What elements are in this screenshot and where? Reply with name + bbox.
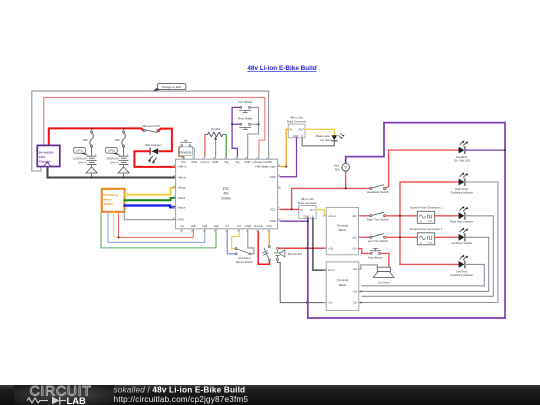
box terminal block 2 — [323, 262, 362, 311]
svg-text:-Motor: -Motor — [177, 205, 185, 209]
svg-text:VM1: VM1 — [334, 164, 340, 168]
svg-text:28: 28 — [213, 158, 215, 160]
svg-text:41: 41 — [203, 230, 205, 232]
svg-text:Horn Button: Horn Button — [368, 255, 383, 259]
svg-text:54.4v@2A: 54.4v@2A — [39, 150, 54, 154]
svg-text:IN: IN — [300, 209, 303, 212]
svg-text:OUT: OUT — [428, 221, 433, 223]
svg-text:GND: GND — [270, 175, 276, 179]
wire reverse brown — [179, 147, 184, 159]
LED headlight — [453, 140, 470, 162]
node battery1 fuse tap — [91, 127, 93, 129]
svg-text:21: 21 — [256, 158, 258, 160]
wire red LED loop to ESC +48v In — [134, 151, 175, 167]
svg-text:http://circuitlab.com/cp2jgy87: http://circuitlab.com/cp2jgy87e3fm5 — [114, 395, 249, 404]
wire brake purple signal — [232, 107, 240, 156]
switch headlamp — [367, 185, 389, 194]
svg-text:Speed Switch: Speed Switch — [236, 260, 254, 264]
ESC top pin stubs — [184, 156, 269, 159]
svg-text:+48v Brake Light: +48v Brake Light — [255, 165, 276, 169]
wire ESC GND purple to buck2 — [281, 220, 308, 222]
svg-text:+5v: +5v — [180, 224, 185, 228]
node battery2 fuse tap — [123, 127, 125, 129]
svg-text:10: 10 — [266, 158, 268, 160]
svg-text:12v LED: 12v LED — [320, 138, 330, 142]
wire buck2 gray to TB2 — [313, 218, 326, 270]
wire LTS to SPG2 — [386, 236, 418, 238]
svg-text:GND: GND — [191, 160, 197, 164]
svg-text:Reverse: Reverse — [179, 150, 191, 154]
svg-text:-12v: -12v — [352, 302, 357, 305]
wire red after switch down to LED — [159, 129, 172, 152]
wire charger-gnd loop (Charger to ESC gray) — [32, 91, 269, 171]
svg-text:Left Rear Indicator: Left Rear Indicator — [451, 241, 472, 245]
wire red vertical bus x400 — [399, 216, 401, 265]
wire TB1 to LTS red — [358, 236, 369, 238]
svg-text:GND: GND — [245, 160, 251, 164]
wire horn gray return to TB2 — [359, 265, 378, 269]
node rear brake purple tee — [231, 123, 233, 125]
svg-text:LiPo2: LiPo2 — [108, 149, 116, 153]
wire throttle red — [204, 135, 206, 157]
svg-text:Headlight: Headlight — [456, 155, 467, 159]
svg-text:Throttle: Throttle — [211, 127, 221, 131]
svg-text:54.4 V: 54.4 V — [110, 160, 118, 164]
wire -48v negative bus — [48, 167, 176, 178]
wire brake gray return — [248, 107, 259, 156]
node VCC tee — [291, 208, 293, 210]
svg-text:Remote Kill: Remote Kill — [288, 252, 302, 256]
svg-text:+12v In: +12v In — [328, 215, 337, 218]
ESC left pin stubs — [173, 167, 176, 220]
voltmeter VM1 — [334, 163, 350, 188]
svg-text:12v Horn: 12v Horn — [378, 280, 390, 284]
flag label LiPo2 — [106, 147, 122, 156]
node red gray crossing — [312, 247, 314, 249]
svg-text:+4.3v In: +4.3v In — [200, 160, 210, 164]
wire motor gray temp — [124, 212, 175, 220]
wire RFOsc gray return — [362, 182, 498, 303]
wire TB1 to RTS red — [358, 215, 369, 217]
svg-text:+12v: +12v — [351, 236, 357, 239]
wire motor blue phase — [125, 206, 176, 208]
svg-text:Terminal: Terminal — [337, 278, 349, 282]
wire orange charge feed — [281, 129, 289, 166]
battery LiPo1 — [87, 156, 96, 164]
wire motor green phase — [125, 198, 176, 200]
wire VM1 red stub — [345, 171, 347, 188]
svg-text:Square Pulse Generator 2: Square Pulse Generator 2 — [410, 227, 443, 231]
svg-text:N/A: N/A — [335, 167, 340, 171]
wire SPG2 out red — [435, 236, 459, 238]
wire reverse gray — [191, 146, 195, 156]
svg-text:VCC: VCC — [266, 224, 272, 228]
ESC bottom pin stubs — [182, 229, 269, 232]
svg-text:+48v In: +48v In — [177, 165, 187, 169]
svg-text:Right Rear Indicator: Right Rear Indicator — [450, 219, 473, 223]
switch Rear Brake — [238, 116, 253, 129]
svg-text:-12v: -12v — [328, 302, 333, 305]
arrowheads into TB2 right pins — [359, 290, 362, 303]
switch left turn — [358, 234, 388, 243]
svg-text:IN: IN — [289, 129, 292, 132]
flag Charger to ESC — [153, 84, 186, 92]
generator square pulse generator 2 — [410, 227, 443, 245]
svg-text:54.4 V: 54.4 V — [78, 160, 86, 164]
svg-text:+12v: +12v — [351, 248, 357, 251]
svg-text:Charger to ESC: Charger to ESC — [162, 85, 182, 89]
svg-text:ESC: ESC — [223, 187, 230, 191]
svg-text:48v: 48v — [223, 192, 229, 196]
svg-text:Sig: Sig — [235, 160, 239, 164]
svg-text:Buck Converter: Buck Converter — [287, 120, 306, 124]
ESC right pin labels — [255, 165, 276, 223]
wire hall blue — [108, 212, 205, 243]
svg-text:GND: GND — [177, 218, 183, 222]
svg-text:+12v: +12v — [351, 215, 357, 218]
svg-text:3: 3 — [202, 158, 203, 160]
svg-text:40: 40 — [191, 230, 193, 232]
svg-text:GND: GND — [245, 224, 251, 228]
node right turn tee — [399, 215, 401, 217]
wire SPG1 out red — [435, 215, 459, 217]
svg-text:-48v In: -48v In — [177, 176, 186, 180]
wire brake purple branch — [232, 123, 240, 125]
ESC left pin labels — [177, 165, 187, 222]
svg-text:Terminal: Terminal — [337, 223, 349, 227]
switch right turn — [358, 212, 389, 221]
svg-text:21: 21 — [173, 196, 175, 198]
wire RFOsc red feed — [400, 182, 458, 216]
wire VCC red up to headlamp net — [292, 188, 370, 209]
svg-text:LiPo1: LiPo1 — [76, 149, 84, 153]
wire headlamp to headlight LED — [386, 150, 459, 188]
svg-text:GND: GND — [212, 160, 218, 164]
node orange brake light tap — [285, 166, 287, 168]
wire buck1 GND purple — [281, 138, 297, 177]
switch 3 position speed — [227, 232, 254, 264]
svg-text:OUT: OUT — [299, 129, 305, 132]
svg-text:sokalled / 48v Li-ion E-Bike B: sokalled / 48v Li-ion E-Bike Build — [114, 385, 246, 394]
wire LFOsc gray return — [362, 264, 484, 285]
button horn — [358, 249, 383, 260]
svg-text:LiPo: LiPo — [39, 155, 46, 159]
svg-text:1500w: 1500w — [103, 202, 113, 206]
footer bar — [0, 383, 540, 405]
antenna Remote Kill — [275, 247, 302, 260]
svg-text:22: 22 — [173, 186, 175, 188]
svg-text:48v Li-ion E-Bike Build: 48v Li-ion E-Bike Build — [247, 65, 316, 72]
wire motor yellow phase — [125, 188, 176, 195]
ground GND battery1 — [86, 164, 97, 177]
wire VCC orange — [268, 232, 270, 246]
battery LiPo2 — [119, 156, 128, 164]
svg-text:Hall: Hall — [191, 224, 196, 228]
ESC bottom pin labels — [180, 224, 272, 228]
wire headlight purple return — [465, 149, 505, 151]
switch Reverse — [178, 141, 194, 159]
svg-text:K1: K1 — [226, 224, 230, 228]
LED indicator LED1 — [145, 143, 162, 164]
potentiometer Throttle — [205, 127, 226, 156]
LED left front oscillating indicator — [450, 255, 473, 277]
fuse F2 40A — [122, 128, 126, 155]
wire charger + (thin red to ESC +Charge In) — [44, 98, 265, 157]
svg-text:Brake Lamp: Brake Lamp — [316, 134, 331, 138]
svg-text:18: 18 — [245, 158, 247, 160]
ESC pin numbers — [173, 158, 280, 233]
svg-text:2000w: 2000w — [221, 196, 231, 200]
LED right rear indicator — [450, 206, 473, 223]
wire hall red — [119, 212, 194, 238]
LED left rear indicator — [451, 228, 472, 245]
svg-text:Right Turn Switch: Right Turn Switch — [367, 217, 389, 221]
svg-text:Hall: Hall — [214, 224, 219, 228]
flag label LiPo1 — [74, 147, 90, 156]
wire LFOsc red feed — [400, 263, 458, 265]
svg-text:26: 26 — [182, 158, 184, 160]
switch key lock — [258, 232, 270, 264]
svg-text:27: 27 — [192, 158, 194, 160]
svg-text:-Motor: -Motor — [177, 196, 185, 200]
svg-text:12v - 80v LED: 12v - 80v LED — [453, 159, 470, 163]
svg-text:Front Brake: Front Brake — [238, 100, 253, 104]
svg-text:+12v: +12v — [328, 248, 334, 251]
wire K2 yellow — [232, 232, 240, 249]
svg-text:GND: GND — [270, 219, 276, 223]
svg-text:12: 12 — [224, 158, 226, 160]
svg-text:12v In: 12v In — [328, 269, 335, 272]
box brushless motor — [102, 189, 125, 212]
box terminal block 1 — [323, 207, 361, 254]
svg-text:Block: Block — [339, 228, 347, 232]
op-amp ESC main box — [176, 159, 278, 229]
box buck converter 1 — [287, 116, 306, 138]
node battery1 gnd — [91, 176, 93, 178]
wire purple gnd bus down-right — [308, 123, 505, 318]
svg-text:Manual OnOff: Manual OnOff — [142, 124, 160, 128]
wire brake lamp gray return — [302, 138, 334, 146]
wire TB1 to horn button red — [358, 249, 370, 254]
svg-text:Hall: Hall — [202, 224, 207, 228]
svg-text:+5 Lock: +5 Lock — [253, 224, 263, 228]
switch SW Manual OnOff — [143, 129, 159, 132]
node left turn tee — [399, 236, 401, 238]
node rear brake gray tee — [258, 123, 260, 125]
svg-text:+: + — [126, 152, 128, 156]
svg-text:LAB: LAB — [67, 395, 86, 405]
wire K1 blue — [227, 232, 235, 254]
wire remote kill red — [279, 247, 327, 249]
svg-text:Right Front: Right Front — [455, 187, 468, 191]
svg-text:24: 24 — [173, 165, 175, 167]
ESC right pin stubs — [278, 167, 281, 221]
svg-text:+Charge In: +Charge In — [252, 160, 266, 164]
wire VCC red to buck2 — [281, 208, 299, 210]
svg-text:-12v: -12v — [352, 290, 357, 293]
svg-text:LED Indicator: LED Indicator — [145, 143, 162, 147]
svg-text:+: + — [94, 152, 96, 156]
svg-text:40A: 40A — [83, 138, 88, 142]
LED brake lamp — [316, 133, 344, 142]
fuse F1 40A — [90, 128, 94, 155]
wire remote kill gray return — [278, 261, 327, 303]
wire RTS to SPG1 — [386, 215, 418, 217]
wire hall green — [101, 212, 216, 248]
node purple hop at -12v line — [306, 301, 310, 304]
svg-text:VCC: VCC — [270, 207, 276, 211]
LED right front oscillating indicator — [450, 172, 473, 194]
svg-text:Rev: Rev — [182, 160, 187, 164]
wire buck2 yellow out — [316, 210, 326, 216]
wire RR gray return — [362, 216, 493, 296]
box charger 54.4v@2A LiPo Charger — [37, 145, 60, 166]
svg-text:15: 15 — [235, 158, 237, 160]
svg-text:+Motor: +Motor — [177, 186, 186, 190]
node battery2 gnd — [123, 176, 125, 178]
svg-text:Oscillating Indicator: Oscillating Indicator — [450, 273, 473, 277]
svg-text:20: 20 — [173, 206, 175, 208]
svg-text:K2: K2 — [238, 224, 242, 228]
wire LR gray return — [362, 237, 489, 291]
generator square pulse generator 1 — [410, 206, 443, 224]
svg-text:Left Turn Switch: Left Turn Switch — [368, 239, 388, 243]
svg-text:Headlamp Switch: Headlamp Switch — [367, 190, 389, 194]
wire speed gnd gray — [248, 232, 254, 254]
node purple hop at +12v line — [306, 247, 310, 250]
ESC top pin labels — [182, 160, 272, 164]
svg-text:OUT: OUT — [310, 209, 316, 212]
node VM1 tap — [345, 187, 347, 189]
switch Front Brake — [238, 100, 253, 113]
svg-text:OUT: OUT — [428, 242, 433, 244]
svg-text:19: 19 — [180, 230, 182, 232]
wire hall yellow stub — [114, 212, 117, 238]
svg-text:Rear Brake: Rear Brake — [238, 116, 253, 120]
wire buck1 yellow out — [305, 129, 334, 135]
node hall red junction — [118, 236, 120, 238]
node -48v bus at ESC — [172, 176, 174, 178]
wire main +48v red bus — [49, 128, 143, 145]
svg-text:40A: 40A — [115, 138, 120, 142]
svg-text:Block: Block — [339, 283, 347, 287]
wire +5 Lock red — [258, 232, 269, 264]
wire horn button to horn red — [381, 253, 389, 266]
svg-text:Square Pulse Generator 1: Square Pulse Generator 1 — [410, 206, 443, 210]
svg-text:Left Front: Left Front — [456, 269, 467, 273]
svg-text:Oscillating Indicator: Oscillating Indicator — [450, 190, 473, 194]
svg-text:Sig: Sig — [225, 160, 229, 164]
svg-text:19: 19 — [173, 218, 175, 220]
svg-text:43: 43 — [214, 230, 216, 232]
svg-text:Motor: Motor — [103, 198, 112, 202]
svg-text:Charger: Charger — [39, 159, 52, 163]
wire throttle green — [225, 135, 227, 157]
wire brake gray branch — [251, 123, 259, 125]
svg-text:17: 17 — [278, 186, 280, 188]
box buck converter 2 — [298, 197, 317, 219]
ground GND battery2 — [118, 164, 129, 177]
speaker 12v horn — [373, 267, 394, 277]
node headlight purple bus tap — [504, 149, 506, 151]
node buck2 gnd tee — [307, 220, 309, 222]
svg-text:Brushless: Brushless — [103, 193, 118, 197]
svg-text:GND: GND — [266, 160, 272, 164]
logo resistor + diode + LAB — [27, 398, 66, 403]
svg-text:-12v: -12v — [352, 268, 357, 271]
svg-text:V: V — [344, 165, 347, 169]
svg-text:Buck Converter: Buck Converter — [298, 201, 317, 205]
